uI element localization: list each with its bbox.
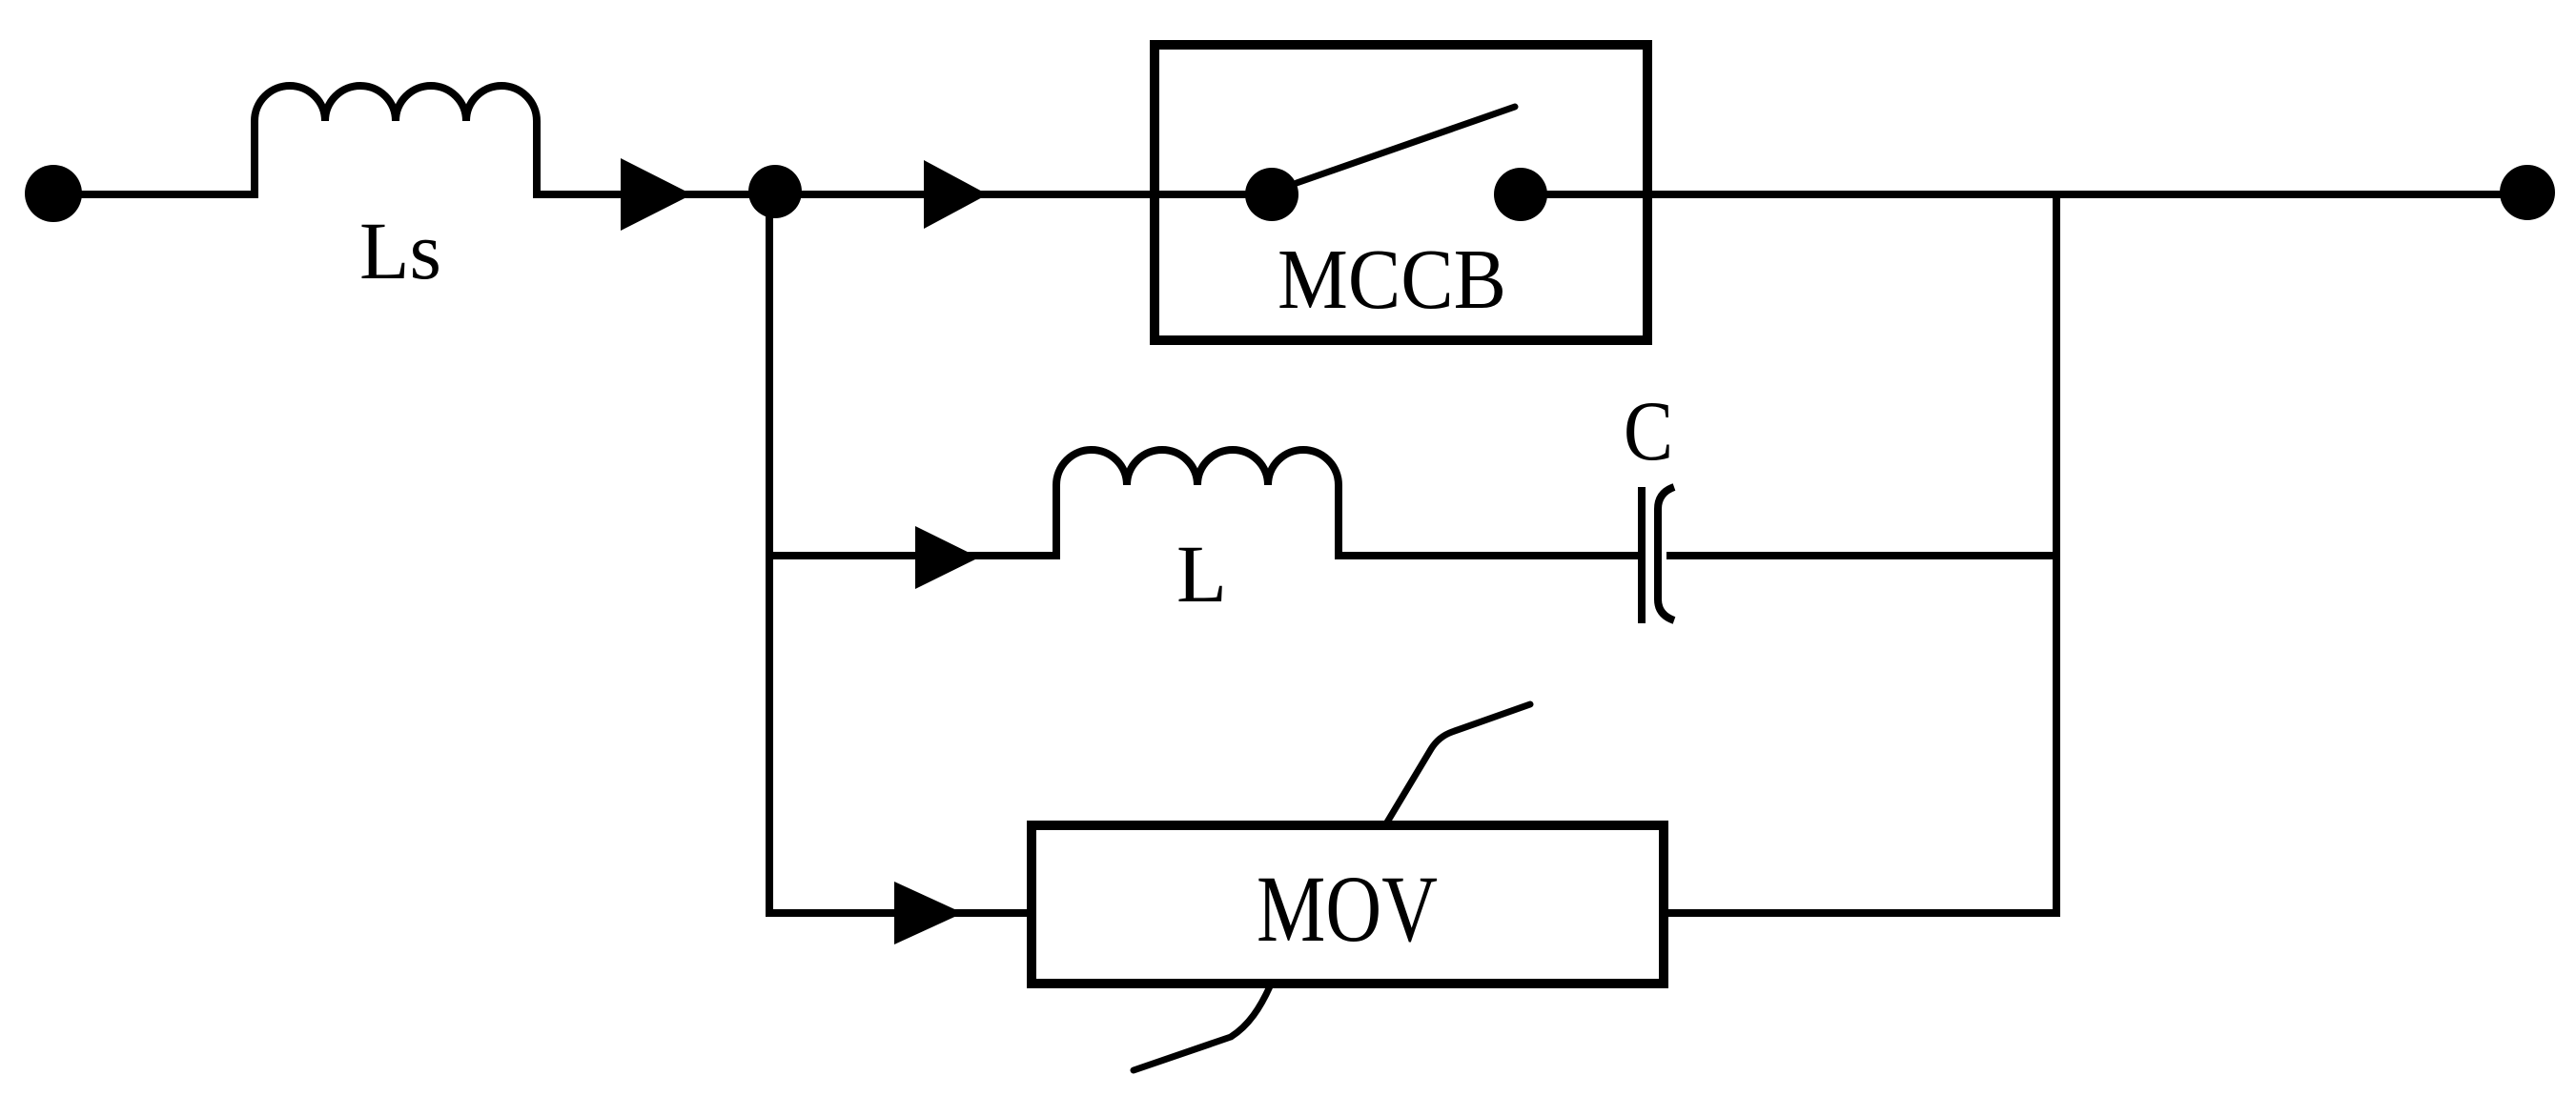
wire from MCCB right contact to right terminal [1521, 191, 2527, 198]
arrow on top wire before junction [621, 158, 692, 231]
svg-text:MOV: MOV [1257, 856, 1438, 962]
breaker box MCCB [1155, 45, 1647, 340]
switch blade [1297, 107, 1515, 183]
inductor L [1056, 450, 1339, 559]
svg-text:L: L [1176, 528, 1227, 619]
varistor stroke lower [1134, 986, 1270, 1070]
svg-text:C: C [1624, 385, 1673, 478]
wire from Ls to MCCB left contact [533, 191, 1272, 198]
wire from MOV to right bus [1663, 909, 2056, 917]
right bus wire [2053, 194, 2060, 917]
terminal right [2500, 165, 2555, 220]
switch right contact [1494, 168, 1547, 221]
wire bottom branch from left bus to MOV [769, 909, 1031, 917]
switch left contact [1245, 168, 1298, 221]
wire from capacitor to right bus [1666, 552, 2056, 559]
arrow on top wire after junction [924, 160, 988, 229]
inductor Ls [255, 86, 537, 198]
varistor stroke upper [1385, 704, 1530, 825]
wire from left terminal to Ls [53, 191, 258, 198]
capacitor C left plate [1638, 487, 1646, 623]
wire middle branch from left bus to L [766, 552, 1060, 559]
left bus wire down from junction [766, 194, 773, 917]
arrow on middle branch [915, 526, 979, 589]
varistor box MOV [1032, 825, 1664, 984]
wire from L to capacitor C [1335, 552, 1643, 559]
capacitor C right plate [1658, 487, 1674, 620]
terminal left [25, 165, 82, 222]
node junction on top wire [748, 165, 802, 218]
svg-text:Ls: Ls [359, 205, 441, 296]
svg-text:MCCB: MCCB [1278, 233, 1506, 327]
arrow on MOV branch [894, 882, 963, 944]
